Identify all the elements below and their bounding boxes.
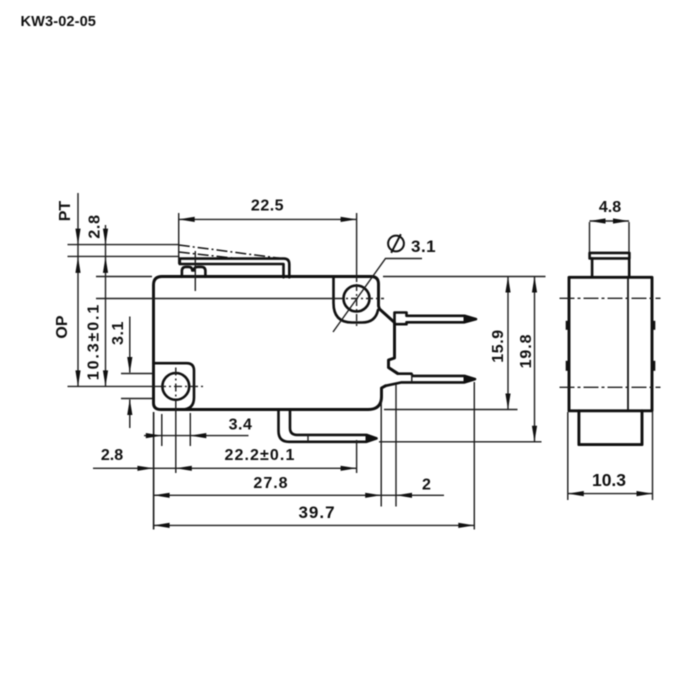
svg-text:OP: OP [54,315,71,338]
svg-text:15.9: 15.9 [490,329,507,363]
hole1 center vertical [175,368,177,407]
leader phi3.1 [333,259,422,333]
plunger button [182,267,206,277]
3.4 arrows [146,433,162,438]
svg-text:22.2±0.1: 22.2±0.1 [225,447,296,464]
terminal 1 (upper) [395,313,477,325]
hole1 bottom tangent ext [121,398,152,400]
10.3 down arrow [103,370,108,386]
body bottom right ext [384,409,518,411]
svg-text:3.4: 3.4 [229,417,253,434]
terminal3 bottom ext [379,441,542,443]
hole2 center vertical [356,213,358,473]
OP down arrow [75,370,80,386]
boss top-right [334,277,379,323]
switch body outline [154,277,398,410]
3.1 arrows [127,357,132,373]
dim line 2.8/10.3 vertical [105,225,107,386]
svg-text:2.8: 2.8 [101,447,123,464]
27.8 arrows [154,493,170,498]
hole2 center line horizontal [96,298,336,300]
PT/OP shared up arrow [75,257,80,273]
svg-text:2: 2 [422,477,431,494]
svg-text:3.1: 3.1 [411,237,436,256]
2.8/10.3 up arrow [103,257,108,273]
svg-text:KW3-02-05: KW3-02-05 [21,14,97,30]
3.4 ext ticks [162,413,191,446]
15.9 arrows [505,277,510,293]
side plunger cap [590,253,630,259]
svg-text:27.8: 27.8 [253,475,288,492]
extension line body top left [96,276,152,278]
side bottom boss [579,411,642,445]
dim line PT/OP vertical [77,193,79,386]
mounting hole bottom-left [162,373,189,400]
terminal 2 (lower) [386,368,476,386]
22.5 left ext / lever tip [178,213,180,264]
blade tip ext [473,382,475,530]
hole1 center line horizontal [68,385,159,387]
mounting hole top-right [344,286,370,312]
lever (operating position) [180,259,289,278]
side center line upper [560,297,661,299]
lever (free position, phantom) [179,245,282,259]
dim line 3.1 vertical [129,317,131,429]
svg-text:4.8: 4.8 [599,199,621,216]
22.2 right arrow [341,466,357,471]
side bumps left [566,321,570,330]
PT down arrow [75,229,80,245]
svg-text:10.3±0.1: 10.3±0.1 [86,303,103,380]
side 10.3 ext lines [568,412,653,500]
2 right outside arrow [396,493,412,498]
2 right ext [395,384,397,507]
side bumps right [651,321,655,330]
22.5 arrows [179,217,195,222]
svg-text:PT: PT [57,201,74,222]
dim line 39.7 [154,524,475,526]
dim line 27.8 / 2 [154,494,444,496]
19.8 arrows [532,277,537,293]
extension line lever pressed (B) [68,255,180,257]
dim line 3.4 [144,435,249,437]
terminal 3 (bottom common) [279,410,377,442]
hole1 top tangent ext [121,373,152,375]
blade tips filled [366,315,477,442]
dim line 22.5 [179,218,357,220]
dim line 15.9 [507,277,509,410]
extension line lever free (A) [68,244,180,246]
39.7 arrows [154,523,170,528]
arrowheads [75,217,537,528]
dim line 19.8 [534,277,536,442]
body left ext down [153,412,155,530]
side 4.8 ext lines [590,222,630,252]
side dim 10.3 [568,493,653,495]
body top right ext [383,276,546,278]
side center line lower [560,386,661,388]
2.8 down arrow [103,229,108,245]
side plunger sides [592,258,629,276]
27.8 right ext [380,400,382,507]
side parting line [627,277,629,411]
side body [569,277,652,411]
side dim 4.8 [590,220,630,222]
2.8 bottom arrows [137,466,153,471]
boss bottom-left [154,363,195,409]
svg-text:39.7: 39.7 [298,503,335,522]
dim line 2.8b / 22.2 [93,467,357,469]
svg-text:10.3: 10.3 [592,470,626,490]
plunger center line [194,251,196,291]
svg-text:3.1: 3.1 [110,321,127,345]
svg-text:19.8: 19.8 [518,334,535,369]
svg-text:2.8: 2.8 [87,214,104,238]
svg-text:22.5: 22.5 [251,198,284,215]
